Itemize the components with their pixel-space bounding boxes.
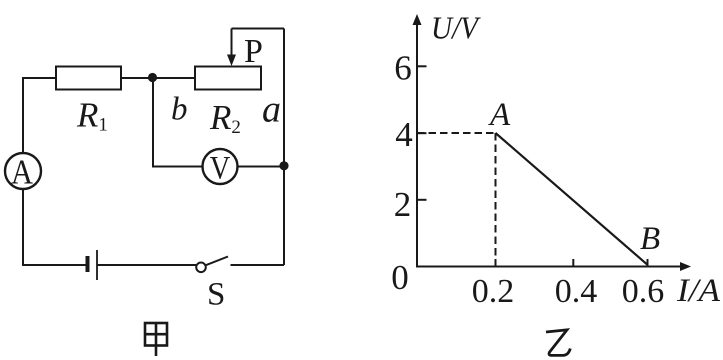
svg-text:0.4: 0.4 — [555, 273, 598, 310]
svg-text:R2: R2 — [209, 98, 241, 138]
y tick 4 — [417, 132, 427, 134]
wire from battery to switch — [97, 264, 196, 266]
switch S lever — [206, 257, 229, 266]
wire from R1 to node b and on to R2 left terminal — [121, 77, 195, 79]
svg-text:S: S — [207, 277, 225, 313]
y-axis U/V — [416, 22, 418, 268]
wire top from wiper to right rail — [232, 28, 285, 30]
svg-text:B: B — [640, 221, 660, 257]
wire from voltmeter to node a — [238, 166, 285, 168]
voltmeter V — [203, 149, 238, 184]
svg-text:4: 4 — [395, 115, 413, 154]
wire right rail — [283, 29, 285, 266]
dashed guide horizontal U=4 — [417, 132, 495, 134]
svg-text:A: A — [488, 97, 511, 133]
svg-text:I/A: I/A — [676, 273, 721, 309]
svg-text:0: 0 — [391, 258, 409, 297]
x tick 0.4 — [572, 259, 574, 267]
battery cell: long thin positive plate — [96, 250, 98, 280]
y tick 2 — [417, 199, 427, 201]
wire from node down and right to voltmeter — [153, 78, 203, 167]
label jia (circuit caption) — [145, 323, 167, 356]
U-I characteristic line from A to B — [496, 133, 648, 265]
svg-text:0.6: 0.6 — [622, 273, 665, 310]
svg-text:A: A — [11, 153, 34, 192]
x tick 0.2 — [495, 259, 497, 267]
x-axis I/A — [417, 266, 684, 268]
svg-text:b: b — [171, 92, 188, 128]
y tick 6 — [417, 65, 427, 67]
svg-text:V: V — [210, 151, 231, 187]
node junction at a — [279, 161, 288, 170]
wire left-top from R1 to left rail down to ammeter — [23, 78, 56, 153]
battery cell: short thick negative plate — [86, 256, 90, 272]
x tick 0.6 — [647, 259, 649, 267]
svg-text:0.2: 0.2 — [472, 273, 515, 310]
resistor R1 — [56, 67, 121, 90]
svg-text:R1: R1 — [76, 96, 108, 136]
wire from switch to right rail — [231, 264, 285, 266]
svg-text:a: a — [262, 89, 281, 131]
potentiometer R2 body — [195, 67, 261, 90]
wire from ammeter down to bottom rail and to battery — [23, 189, 87, 265]
switch S pivot — [196, 263, 206, 273]
label yi (graph caption) — [546, 330, 570, 356]
svg-text:U/V: U/V — [431, 10, 481, 46]
wiper arrow P of potentiometer — [231, 29, 233, 59]
ammeter A — [5, 153, 41, 189]
svg-text:2: 2 — [394, 185, 412, 224]
dashed guide vertical I=0.2 — [495, 133, 497, 266]
node junction at b — [148, 73, 157, 82]
svg-text:6: 6 — [394, 49, 412, 88]
svg-text:P: P — [244, 33, 263, 70]
